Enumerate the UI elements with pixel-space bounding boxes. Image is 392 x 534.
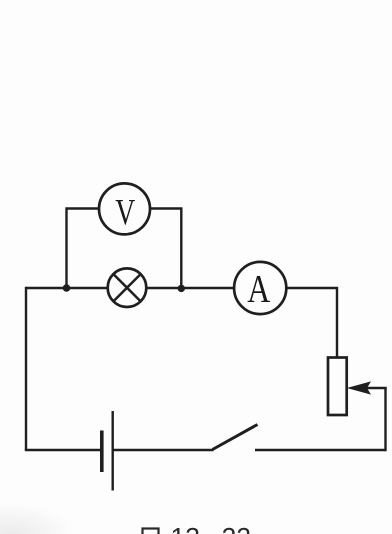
caption: 图 glyph (top edge visible, drawn box) — [143, 529, 159, 534]
voltmeter V: circle — [99, 183, 150, 234]
ammeter A: circle — [234, 262, 286, 314]
node: right junction dot — [178, 285, 185, 292]
wire: switch fixed contact to bottom-right corner — [255, 449, 386, 451]
lamp L: bulb circle — [108, 268, 147, 307]
wire: slider arm horizontal — [367, 387, 387, 389]
wire: voltmeter branch left (junction up and to V) — [67, 209, 100, 289]
node: left junction dot — [63, 284, 71, 292]
wire: right vertical (bottom corner up to slider arm) — [384, 388, 386, 451]
wire: main line, left rail to lamp — [26, 287, 109, 289]
svg-text:A: A — [247, 268, 270, 311]
svg-text:22: 22 — [222, 522, 251, 534]
rheostat R: resistor body — [328, 358, 347, 416]
svg-text:13: 13 — [171, 522, 200, 534]
wire: left rail (left vertical from main line down to bottom) — [25, 287, 27, 450]
switch S: blade (open) — [213, 425, 258, 450]
battery G (cell): short thick negative plate — [100, 431, 104, 473]
wire: lamp to ammeter — [146, 287, 235, 289]
battery G (cell): long thin positive plate — [111, 411, 113, 491]
rheostat R: slider arrowhead — [347, 381, 371, 394]
lamp L: X cross — [114, 274, 141, 301]
wire: ammeter to right turn, down to rheostat top — [286, 288, 337, 358]
wire: bottom left (left corner to battery negative plate) — [25, 449, 101, 451]
svg-text:V: V — [115, 193, 135, 234]
wire: voltmeter branch right (V to right junction) — [150, 209, 182, 289]
wire: battery to switch pivot — [113, 449, 214, 451]
